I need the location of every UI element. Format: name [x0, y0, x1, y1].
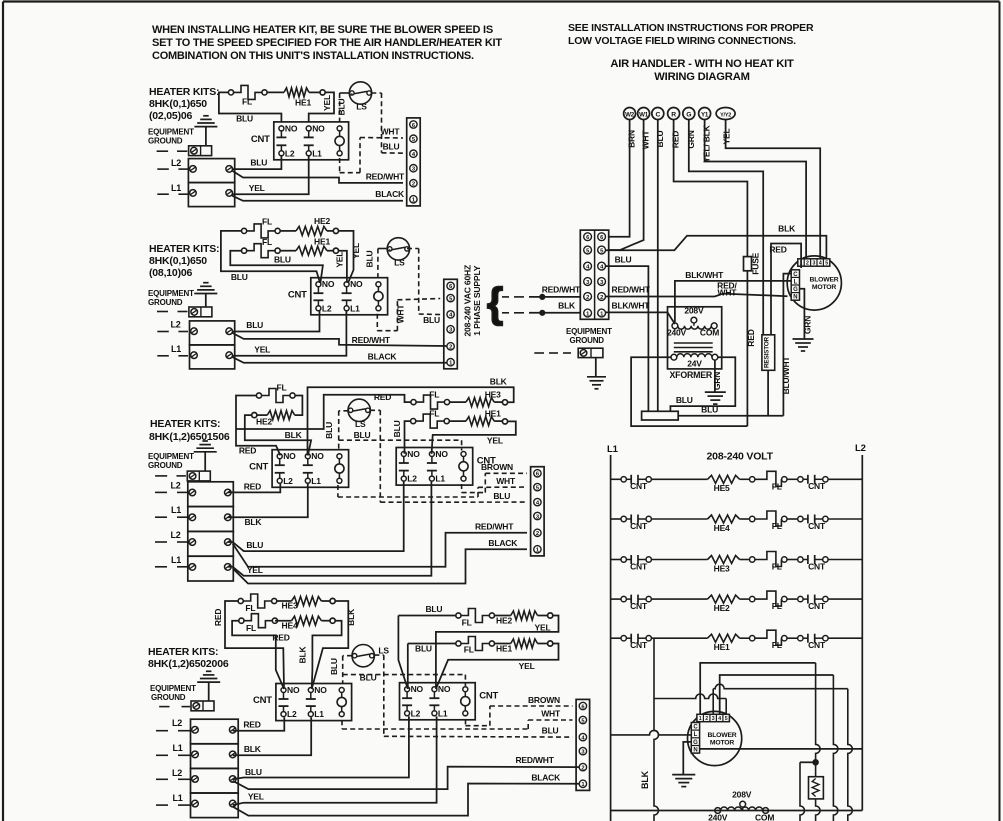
svg-text:BLU: BLU — [245, 767, 262, 777]
kit3 RED row with FL and HE3 — [392, 395, 411, 402]
svg-text:CNT: CNT — [808, 561, 826, 571]
svg-text:HE2: HE2 — [714, 603, 730, 613]
svg-text:L2: L2 — [172, 768, 182, 778]
svg-text:5: 5 — [725, 716, 728, 722]
svg-text:2: 2 — [449, 345, 452, 351]
svg-text:L2: L2 — [322, 303, 332, 313]
wire L1 rail to motor L — [611, 730, 692, 735]
kit2 limit switch LS — [387, 238, 409, 260]
kit3 contactor CNT1 — [272, 450, 349, 488]
svg-text:FL: FL — [464, 644, 474, 654]
kit3 wire BLK row2 to CNT1 L1 — [228, 484, 308, 517]
svg-text:RED/WHT: RED/WHT — [515, 755, 554, 765]
wire rung3 riser — [848, 689, 853, 821]
wire motor N to L2 rail — [700, 748, 863, 750]
svg-text:CNT: CNT — [630, 601, 648, 611]
svg-text:NO: NO — [435, 449, 448, 459]
ladder rung HE3 — [611, 559, 621, 561]
svg-text:CNT: CNT — [808, 601, 826, 611]
kit4 fuse block 4 rows — [191, 719, 239, 744]
svg-text:BLU: BLU — [655, 131, 665, 148]
svg-text:L2: L2 — [283, 476, 293, 486]
svg-text:HEATER KITS:: HEATER KITS: — [149, 243, 219, 255]
wire W2 BRN to strip6 — [610, 120, 630, 237]
kit3 dashed branch to CNT2 coil — [339, 439, 462, 441]
kit1 dashed LS-left to coil — [351, 93, 353, 95]
kit4 wire YEL row4 to CNT2 L1 — [233, 716, 437, 805]
svg-text:NO: NO — [411, 684, 424, 694]
xformer core bars — [674, 342, 713, 344]
svg-text:W2: W2 — [625, 111, 635, 118]
kit2 ground stem — [205, 294, 207, 308]
svg-text:208-240 VOLT: 208-240 VOLT — [707, 451, 774, 463]
svg-text:BLU: BLU — [337, 99, 347, 116]
svg-text:BLU: BLU — [493, 491, 510, 501]
kit3 wire YEL HE1 to CNT2 NO2 — [432, 421, 516, 453]
kit3 contactor CNT2 — [396, 448, 473, 486]
svg-text:L1: L1 — [314, 709, 324, 719]
kit4 contactor CNT2 — [400, 683, 476, 720]
RED wire box to motor C — [771, 244, 801, 335]
svg-text:RED/WHT: RED/WHT — [612, 285, 651, 295]
mid ground stem and symbol — [595, 358, 597, 377]
svg-text:BLK/WHT: BLK/WHT — [685, 270, 724, 280]
svg-text:L2: L2 — [171, 530, 181, 540]
svg-text:AIR HANDLER - WITH NO HEAT KIT: AIR HANDLER - WITH NO HEAT KIT — [610, 58, 794, 70]
svg-text:WHT: WHT — [641, 130, 651, 150]
svg-text:BLK/WHT: BLK/WHT — [612, 301, 651, 311]
wire pin4 up over — [720, 675, 834, 714]
svg-text:FL: FL — [772, 481, 782, 491]
svg-text:HE1: HE1 — [485, 409, 501, 419]
wire BLK strip5 to motor pin5 — [606, 236, 827, 259]
kit2 dashed LS-right to terminal 4 — [407, 248, 419, 250]
svg-text:FL: FL — [772, 640, 782, 650]
kit4 heater element HE4 — [292, 616, 322, 625]
thermostat terminal G — [683, 108, 695, 120]
svg-text:YEL: YEL — [334, 252, 344, 268]
svg-text:BLU: BLU — [392, 420, 402, 437]
svg-text:HE3: HE3 — [282, 601, 298, 611]
svg-text:RED: RED — [243, 720, 260, 730]
svg-text:YEL: YEL — [519, 661, 535, 671]
kit4 wire YEL HE1 to NO2 — [436, 644, 559, 689]
svg-text:COM: COM — [700, 328, 719, 338]
kit1 fuse link FL — [228, 90, 233, 95]
bottom 208V transformer — [715, 808, 721, 814]
svg-text:BLACK: BLACK — [531, 772, 561, 782]
kit4 wire RED HE3-left to NO1 — [225, 601, 284, 689]
kit3 FL HE1 row — [411, 419, 416, 424]
supply dash BLK — [502, 312, 509, 314]
svg-text:L2: L2 — [171, 481, 181, 491]
svg-text:BLU: BLU — [415, 644, 432, 654]
svg-text:L1: L1 — [173, 793, 183, 803]
svg-text:L1: L1 — [311, 476, 321, 486]
svg-text:NO: NO — [350, 279, 363, 289]
svg-text:FL: FL — [772, 521, 782, 531]
svg-text:GROUND: GROUND — [148, 298, 183, 307]
svg-text:L1: L1 — [607, 444, 619, 455]
svg-text:FL: FL — [262, 237, 272, 247]
svg-text:8HK(0,1)650: 8HK(0,1)650 — [149, 98, 207, 110]
ladder rung HE4 — [611, 518, 621, 520]
kit3 heater element HE2 — [267, 411, 294, 420]
svg-text:NO: NO — [438, 684, 451, 694]
svg-text:HE1: HE1 — [714, 642, 730, 652]
svg-text:RED: RED — [769, 245, 786, 255]
kit4 wire RED/WHT row3 to terminal 2 — [233, 767, 580, 790]
bottom motor pin row 1-5 — [697, 714, 730, 721]
svg-text:YEL: YEL — [247, 565, 263, 575]
svg-text:CNT: CNT — [808, 640, 826, 650]
24V connection block — [642, 411, 679, 420]
bottom resistor box — [809, 777, 824, 799]
svg-text:BLU: BLU — [329, 658, 339, 675]
svg-text:BLOWER: BLOWER — [809, 277, 838, 284]
kit4 heater element HE3 — [292, 597, 322, 606]
svg-text:G: G — [686, 111, 691, 118]
svg-text:HE3: HE3 — [485, 390, 501, 400]
svg-text:BLU: BLU — [354, 430, 371, 440]
svg-text:3: 3 — [712, 716, 715, 722]
kit1 wire BLU left loop — [219, 92, 282, 122]
supply line RED/WHT with bullet — [529, 296, 580, 298]
svg-text:YEL: YEL — [722, 129, 732, 145]
kit3 wire RED long left — [236, 395, 392, 429]
svg-text:BLK: BLK — [490, 377, 508, 387]
wire pin5 left to BLK riser — [725, 699, 727, 715]
kit2 wire YEL from HE1 — [339, 251, 347, 283]
svg-text:BLU: BLU — [383, 142, 400, 152]
xformer ground symbol — [705, 391, 726, 393]
kit2 heater element HE2 — [280, 230, 296, 232]
svg-text:GROUND: GROUND — [151, 693, 186, 702]
kit1 wire RED/WHT to terminal 2 — [232, 171, 403, 183]
svg-text:BLK: BLK — [346, 608, 356, 626]
kit4 BLU FL HE2 row — [398, 615, 455, 617]
svg-text:CNT: CNT — [630, 640, 648, 650]
svg-text:SET TO THE SPEED SPECIFIED FOR: SET TO THE SPEED SPECIFIED FOR THE AIR H… — [152, 37, 502, 49]
svg-text:EQUIPMENT: EQUIPMENT — [150, 684, 196, 693]
kit4 dashed LS-left to CNT1 coil — [343, 655, 352, 657]
svg-text:FL: FL — [246, 623, 256, 633]
bottom motor CLGN boxes — [691, 723, 699, 754]
kit4 limit switch LS — [352, 645, 374, 667]
kit3 ground symbol — [194, 451, 217, 453]
wire rung4 riser — [833, 675, 838, 821]
bottom blower motor circle — [688, 711, 742, 765]
svg-text:LOW VOLTAGE FIELD WIRING CONNE: LOW VOLTAGE FIELD WIRING CONNECTIONS. — [568, 35, 796, 47]
wire GRN motor G to ground — [800, 289, 805, 339]
kit3 wire BLU row3 to CNT2 L2 — [228, 482, 404, 552]
svg-text:HEATER KITS:: HEATER KITS: — [148, 646, 218, 658]
wire pin1 up over to resistor drop — [700, 663, 815, 714]
thermostat terminal C — [652, 108, 664, 120]
svg-text:RED: RED — [244, 481, 261, 491]
xformer primary taps 240V COM — [672, 323, 678, 329]
kit3 limit switch LS — [348, 399, 370, 421]
kit4 ground lug — [191, 701, 214, 711]
kit2 dashed LS-left to coil — [389, 249, 391, 251]
svg-text:EQUIPMENT: EQUIPMENT — [148, 452, 194, 461]
ladder L2 rail — [861, 455, 863, 811]
svg-text:L1: L1 — [435, 474, 445, 484]
svg-text:G: G — [793, 287, 798, 293]
svg-text:WIRING DIAGRAM: WIRING DIAGRAM — [654, 71, 749, 83]
kit1 fuse block — [188, 159, 234, 183]
svg-text:CNT: CNT — [630, 561, 648, 571]
wire BLU/WHT motor C to node — [783, 274, 791, 416]
wire RED/WHT strip2 to motor N — [606, 294, 788, 297]
svg-text:WHT: WHT — [496, 476, 516, 486]
kit4 wire RED HE4-left to NO1 — [232, 621, 284, 689]
svg-text:BRN: BRN — [627, 130, 637, 148]
svg-text:YEL: YEL — [249, 183, 265, 193]
svg-text:L2: L2 — [171, 320, 181, 330]
kit3 dashed WHT CNT1-coil to terminal 5 — [337, 485, 339, 497]
svg-text:CNT: CNT — [808, 521, 826, 531]
svg-text:NO: NO — [287, 685, 300, 695]
svg-text:LS: LS — [394, 258, 405, 268]
svg-text:CNT: CNT — [630, 521, 648, 531]
svg-text:2: 2 — [586, 295, 589, 301]
svg-text:(08,10)06: (08,10)06 — [149, 267, 193, 279]
svg-text:WHT: WHT — [718, 287, 738, 297]
ladder L1 rail — [610, 455, 612, 821]
svg-text:FL: FL — [429, 409, 439, 419]
svg-text:L2: L2 — [171, 158, 181, 168]
svg-text:BLU: BLU — [236, 114, 253, 124]
svg-text:GROUND: GROUND — [148, 461, 183, 470]
svg-text:LS: LS — [355, 419, 366, 429]
svg-text:RED: RED — [746, 329, 756, 346]
R loop wire 24V left tap — [631, 357, 747, 426]
kit4 ground stem — [208, 682, 210, 701]
svg-text:GROUND: GROUND — [570, 336, 605, 345]
svg-text:BROWN: BROWN — [528, 695, 560, 705]
wire motor G to ground — [683, 742, 691, 775]
ladder rung HE5 — [611, 478, 621, 480]
ladder rung HE1 — [611, 637, 621, 639]
bottom ground symbol — [672, 774, 695, 776]
svg-text:BLU: BLU — [360, 673, 377, 683]
svg-text:RESISTOR: RESISTOR — [764, 336, 771, 368]
wire Y/Y2 to motor pin4 — [726, 120, 821, 259]
resistor box RESISTOR — [762, 335, 775, 371]
kit2 wire YEL from HE2 — [339, 231, 354, 283]
kit3 ground stem — [204, 452, 206, 471]
svg-text:BLU: BLU — [250, 158, 267, 168]
svg-text:L1: L1 — [438, 708, 448, 718]
svg-text:FL: FL — [242, 97, 252, 107]
svg-text:CNT: CNT — [288, 289, 307, 300]
svg-text:YEL: YEL — [535, 623, 551, 633]
svg-text:HE4: HE4 — [282, 621, 298, 631]
kit4 fuse link FL row HE4 — [239, 618, 244, 623]
BLU wire 24V right tap loop — [670, 357, 735, 411]
kit2 fuse block — [190, 321, 235, 345]
kit2 wire BLU fuseblock to CNT L2 — [233, 311, 320, 332]
svg-text:RED/WHT: RED/WHT — [475, 522, 514, 532]
kit1 dashed LS-right to terminal 4 — [371, 92, 381, 94]
svg-text:BLU: BLU — [423, 315, 440, 325]
svg-text:BLOWER: BLOWER — [707, 732, 736, 739]
wire C BLU down to 24V block — [657, 120, 659, 412]
svg-text:Y1: Y1 — [701, 111, 709, 118]
kit4 wire BLK row2 to CNT1 L1 — [233, 717, 312, 755]
svg-text:FL: FL — [772, 601, 782, 611]
thermostat terminal Y/Y2 — [716, 108, 735, 120]
kit4 dashed branch to CNT2 coil — [343, 674, 466, 676]
kit3 fuse block 4 rows — [188, 482, 234, 507]
svg-text:CNT: CNT — [479, 691, 498, 702]
svg-text:Y/Y2: Y/Y2 — [720, 112, 731, 118]
svg-text:4: 4 — [819, 261, 822, 267]
svg-text:NO: NO — [322, 279, 335, 289]
svg-text:L1: L1 — [312, 148, 322, 158]
svg-text:GRN: GRN — [803, 316, 813, 334]
svg-text:HE4: HE4 — [714, 523, 730, 533]
kit2 contactor CNT — [311, 278, 388, 315]
svg-text:1: 1 — [699, 716, 702, 722]
svg-text:BLU/WHT: BLU/WHT — [781, 356, 791, 395]
kit4 wire BLK HE4 right down — [312, 621, 342, 689]
kit2 wire BLU row1 left — [221, 231, 320, 283]
svg-text:BLU: BLU — [615, 255, 632, 265]
kit3 terminal strip — [531, 467, 545, 556]
supply line BLK with bullet — [529, 312, 580, 314]
svg-text:FL: FL — [277, 383, 287, 393]
kit1 ground symbol — [194, 126, 217, 128]
svg-text:208V: 208V — [684, 306, 704, 316]
wire G GRN right and down — [689, 120, 763, 335]
svg-text:EQUIPMENT: EQUIPMENT — [148, 289, 194, 298]
svg-text:GROUND: GROUND — [148, 137, 183, 146]
svg-text:2: 2 — [412, 182, 415, 188]
svg-text:EQUIPMENT: EQUIPMENT — [148, 128, 194, 137]
svg-text:{: { — [487, 279, 503, 326]
kit2 wire YEL fuseblock to CNT L1 — [233, 311, 347, 356]
svg-text:RED/WHT: RED/WHT — [542, 285, 581, 295]
svg-text:YEL: YEL — [254, 345, 270, 355]
XFORMER transformer box — [668, 307, 722, 369]
wire BLK/WHT strip1 to 240V tap — [606, 312, 675, 324]
svg-text:YEL/ BLK: YEL/ BLK — [702, 124, 712, 162]
svg-text:C: C — [655, 111, 660, 118]
svg-text:N: N — [793, 295, 797, 301]
svg-text:L: L — [694, 732, 698, 738]
wire BLK/WHT 240V tap up to motor L — [675, 281, 791, 322]
svg-text:L1: L1 — [173, 743, 183, 753]
kit4 BLU FL HE1 row — [408, 643, 456, 645]
svg-text:MOTOR: MOTOR — [710, 740, 734, 747]
kit3 wire YEL row4 to CNT2 L1 — [228, 482, 432, 576]
junction dot — [813, 760, 819, 766]
kit2 fuse link FL row HE2 — [242, 228, 247, 233]
svg-text:YEL: YEL — [487, 436, 503, 446]
kit1 terminal strip — [407, 118, 421, 206]
svg-text:FUSE: FUSE — [751, 252, 761, 274]
svg-text:24V: 24V — [687, 359, 702, 369]
svg-text:BLK: BLK — [640, 770, 650, 789]
kit4 wire BLU row2 vert to NO1 — [407, 644, 409, 689]
kit4 wire YEL HE2 to NO2 — [436, 616, 559, 689]
wire 240V bottom line — [611, 810, 863, 812]
svg-text:FL: FL — [772, 562, 782, 572]
svg-text:NO: NO — [314, 685, 327, 695]
svg-text:BLU: BLU — [701, 404, 718, 414]
svg-text:L2: L2 — [287, 709, 297, 719]
svg-text:WHT: WHT — [396, 304, 406, 324]
kit2 wire BLU row2 left — [230, 251, 323, 283]
svg-text:SEE INSTALLATION INSTRUCTIONS: SEE INSTALLATION INSTRUCTIONS FOR PROPER — [568, 22, 814, 34]
wire dot branch left down — [800, 761, 816, 763]
kit2 ground symbol — [194, 293, 217, 295]
svg-text:YEL: YEL — [322, 95, 332, 111]
kit1 ground stem — [205, 127, 207, 146]
svg-text:YEL: YEL — [248, 792, 264, 802]
svg-text:HE3: HE3 — [714, 563, 730, 573]
kit4 contactor CNT1 — [276, 684, 352, 721]
blower motor circle — [787, 256, 841, 310]
kit3 fuse link FL top — [256, 393, 261, 398]
svg-text:208V: 208V — [732, 790, 752, 800]
supply dash RED/WHT — [502, 296, 509, 298]
svg-text:L2: L2 — [285, 148, 295, 158]
svg-text:(02,05)06: (02,05)06 — [149, 110, 193, 122]
xformer secondary 24V — [671, 354, 677, 360]
svg-text:BROWN: BROWN — [481, 462, 513, 472]
kit4 dashed LS-right BLU to terminal 4 — [374, 654, 383, 656]
svg-text:FL: FL — [429, 389, 439, 399]
svg-text:HE2: HE2 — [314, 216, 330, 226]
kit3 dashed LS-left to CNT1 coil — [339, 410, 349, 412]
svg-text:NO: NO — [312, 123, 325, 133]
thermostat terminal R — [668, 108, 680, 120]
kit1 wire BLACK to terminal 1 — [232, 196, 403, 201]
kit1 wire FL to HE1 — [267, 91, 284, 93]
svg-text:RED: RED — [213, 609, 223, 626]
svg-text:N: N — [693, 748, 697, 754]
svg-text:FL: FL — [245, 603, 255, 613]
svg-text:BLU: BLU — [246, 320, 263, 330]
svg-text:HE2: HE2 — [256, 417, 272, 427]
kit4 wire BLU vert to NO1 — [398, 616, 407, 689]
svg-text:HEATER KITS:: HEATER KITS: — [150, 418, 220, 430]
svg-text:BLU: BLU — [231, 272, 248, 282]
svg-text:4: 4 — [718, 716, 721, 722]
kit1 wire YEL fuseblock to CNT L1 — [232, 155, 309, 194]
kit3 wire BLK NO2 up and over to HE3 — [308, 387, 514, 455]
svg-text:2: 2 — [600, 295, 603, 301]
kit4 ground symbol — [197, 681, 220, 683]
svg-text:8HK(1,2)6502006: 8HK(1,2)6502006 — [148, 658, 229, 670]
svg-text:YEL: YEL — [351, 243, 361, 259]
svg-text:FL: FL — [262, 217, 272, 227]
svg-text:L1: L1 — [171, 505, 181, 515]
wire BLK riser rung5 to bottom — [654, 638, 659, 821]
svg-text:1 PHASE SUPPLY: 1 PHASE SUPPLY — [472, 265, 482, 335]
kit3 wire BLK HE2-left to CNT NO2 — [245, 415, 311, 455]
svg-text:HE1: HE1 — [314, 237, 330, 247]
kit4 wire BLU row3 to CNT2 L2 — [233, 716, 409, 779]
svg-text:L1: L1 — [171, 183, 181, 193]
svg-text:CNT: CNT — [251, 134, 270, 145]
svg-text:BLU: BLU — [364, 251, 374, 268]
svg-text:208-240 VAC 60HZ: 208-240 VAC 60HZ — [463, 265, 473, 337]
wire resistor bottom to node — [767, 370, 769, 415]
